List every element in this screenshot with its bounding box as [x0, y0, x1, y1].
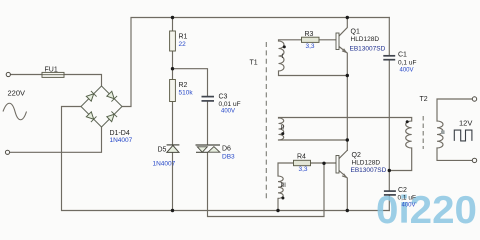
svg-text:R4: R4: [297, 154, 306, 161]
svg-text:Q2: Q2: [352, 152, 361, 159]
svg-text:22: 22: [179, 41, 187, 48]
svg-text:EB13007SD: EB13007SD: [350, 46, 386, 53]
svg-text:1N4007: 1N4007: [153, 161, 176, 168]
svg-text:D6: D6: [222, 146, 231, 153]
svg-text:0i220: 0i220: [376, 189, 477, 224]
svg-text:HLD128D: HLD128D: [352, 160, 381, 167]
svg-text:220V: 220V: [8, 89, 26, 98]
svg-text:3,3: 3,3: [299, 166, 308, 173]
svg-text:Q1: Q1: [351, 29, 360, 36]
svg-text:400V: 400V: [402, 203, 416, 209]
svg-text:400V: 400V: [400, 68, 414, 74]
svg-text:C2: C2: [398, 187, 407, 194]
svg-text:R3: R3: [305, 31, 314, 38]
svg-text:0,1 uF: 0,1 uF: [398, 195, 416, 202]
svg-text:DB3: DB3: [222, 154, 235, 161]
svg-text:400V: 400V: [221, 109, 235, 115]
svg-text:R1: R1: [179, 34, 188, 41]
svg-text:510k: 510k: [179, 90, 194, 97]
svg-text:FU1: FU1: [45, 66, 58, 73]
svg-text:0,1 uF: 0,1 uF: [398, 60, 416, 67]
svg-text:I: I: [282, 53, 284, 60]
svg-text:C3: C3: [219, 94, 228, 101]
svg-text:1N4007: 1N4007: [110, 137, 133, 144]
svg-text:T2: T2: [420, 96, 428, 103]
svg-text:D5: D5: [158, 147, 167, 154]
svg-text:0,01 uF: 0,01 uF: [219, 101, 241, 108]
svg-text:T1: T1: [250, 60, 258, 67]
svg-text:C1: C1: [398, 52, 407, 59]
svg-text:HLD128D: HLD128D: [351, 36, 380, 43]
svg-text:3,3: 3,3: [306, 43, 315, 50]
svg-text:III: III: [281, 182, 287, 189]
svg-text:II: II: [281, 125, 285, 132]
svg-text:R2: R2: [179, 82, 188, 89]
svg-text:D1-D4: D1-D4: [110, 130, 130, 137]
svg-text:EB13007SD: EB13007SD: [351, 167, 387, 174]
svg-text:12V: 12V: [459, 119, 472, 128]
